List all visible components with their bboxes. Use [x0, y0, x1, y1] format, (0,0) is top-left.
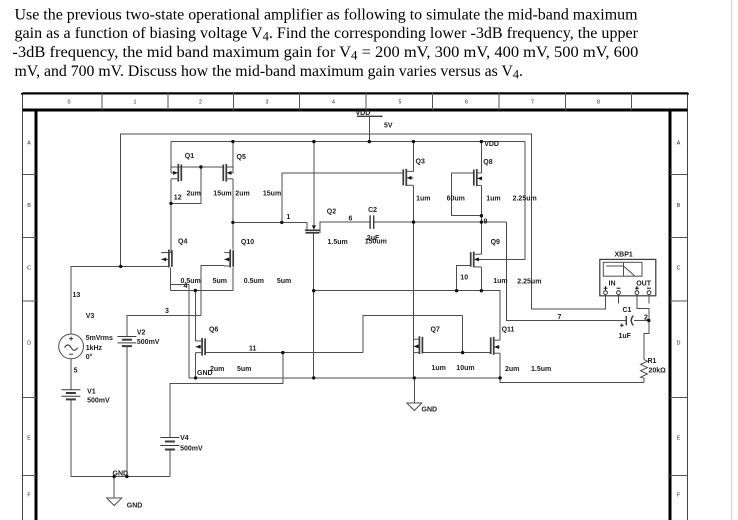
- junction ground bus GND symbol: [413, 376, 416, 379]
- svg-text:gain as a function of biasing: gain as a function of biasing voltage V4…: [15, 25, 639, 44]
- svg-text:2: 2: [199, 100, 202, 106]
- svg-text:2.25um: 2.25um: [517, 279, 541, 286]
- ground symbol (bottom): [107, 498, 122, 506]
- svg-text:60um: 60um: [447, 195, 465, 202]
- svg-text:1.5um: 1.5um: [328, 239, 348, 246]
- wire Q9 gate loop node 10: [457, 265, 471, 290]
- svg-text:Q10: Q10: [241, 239, 254, 246]
- svg-text:GND: GND: [127, 503, 143, 510]
- svg-text:15um: 15um: [213, 190, 231, 197]
- svg-text:6: 6: [465, 100, 468, 106]
- junction rail-Q8: [480, 140, 483, 143]
- svg-text:VDD: VDD: [356, 110, 371, 117]
- svg-text:10: 10: [460, 275, 468, 282]
- battery V1: [61, 390, 80, 400]
- wire VDD rail: [171, 141, 525, 143]
- wire net 3 from V2: [127, 316, 201, 337]
- svg-text:B: B: [677, 203, 681, 209]
- wire net 1 horizontal: [233, 221, 307, 223]
- svg-text:A: A: [27, 141, 31, 147]
- page edge line: [731, 0, 733, 520]
- wire input loop top (node 13 to Bode IN+): [121, 134, 606, 309]
- junction bus Q2 source: [312, 289, 315, 292]
- schematic border frame: [23, 93, 688, 520]
- svg-text:1um: 1um: [486, 195, 500, 202]
- svg-text:5V: 5V: [384, 123, 393, 130]
- svg-text:OUT: OUT: [636, 280, 652, 287]
- instrument XBP1 (Bode plotter): [600, 259, 656, 295]
- wire Q9 bulk line to VDD corner: [474, 142, 525, 260]
- svg-text:B: B: [27, 203, 31, 209]
- junction rail-VDD stem: [368, 140, 371, 143]
- svg-text:XBP1: XBP1: [615, 252, 633, 259]
- svg-text:15um: 15um: [263, 190, 281, 197]
- svg-text:C: C: [27, 266, 31, 272]
- svg-text:9: 9: [484, 218, 488, 225]
- wire Q8 drain to rail: [480, 142, 482, 173]
- wire node 4 horizontal: [171, 290, 233, 292]
- junction ground bus Q11: [498, 376, 501, 379]
- wire Q1 drain to node 12: [170, 179, 172, 253]
- wire Q6 source to ground bus: [195, 353, 197, 378]
- svg-text:500mV: 500mV: [87, 397, 110, 404]
- wire R1 bottom: [643, 378, 645, 383]
- svg-text:5: 5: [74, 368, 78, 375]
- wire net 4 stub: [171, 284, 189, 286]
- svg-text:1.5um: 1.5um: [531, 366, 551, 373]
- wire V2 minus down: [126, 346, 128, 476]
- wire Q4 gate riser: [170, 267, 172, 290]
- svg-text:12: 12: [174, 195, 182, 202]
- wire net 3 riser to Q10 source: [201, 266, 224, 316]
- wire C1 to R1: [634, 321, 649, 360]
- svg-text:Q8: Q8: [483, 159, 492, 166]
- svg-text:4: 4: [332, 100, 335, 106]
- svg-text:E: E: [677, 436, 681, 442]
- svg-text:1: 1: [286, 214, 290, 221]
- svg-text:GND: GND: [422, 407, 438, 414]
- wire Q1-Q5 gate wire: [171, 166, 223, 168]
- capacitor C1: [620, 316, 633, 328]
- junction ground rail GND drop: [113, 475, 116, 478]
- wire ground bus: [189, 377, 500, 379]
- junction rail-Q2: [312, 140, 315, 143]
- transistor Q7: [414, 336, 423, 354]
- junction net 1 riser: [280, 221, 283, 224]
- svg-text:7: 7: [531, 100, 534, 106]
- junction bus Q9 source: [480, 289, 483, 292]
- transistor Q2 (rotated): [305, 225, 320, 232]
- wire V3 to V1: [70, 359, 72, 390]
- wire V4 minus to ground rail: [169, 450, 171, 477]
- svg-text:D: D: [677, 340, 681, 346]
- junction node 12 gate: [199, 165, 202, 168]
- svg-text:Q11: Q11: [502, 327, 515, 334]
- wire Q2 gate lead: [306, 222, 308, 230]
- wire Q8 source to Q9 drain: [480, 185, 482, 254]
- svg-text:3: 3: [165, 308, 169, 315]
- resistor R1: [641, 360, 648, 379]
- VDD power symbol: [357, 115, 383, 117]
- wire bus node 4/9 horizontal: [314, 291, 500, 341]
- svg-text:0°: 0°: [86, 353, 93, 361]
- svg-text:20kΩ: 20kΩ: [649, 367, 667, 374]
- wire V4 bias line: [170, 353, 283, 438]
- svg-text:5: 5: [399, 100, 402, 106]
- svg-text:2.25um: 2.25um: [513, 195, 537, 202]
- wire V1 minus down: [70, 399, 72, 476]
- svg-text:R1: R1: [648, 358, 657, 365]
- svg-text:IN: IN: [609, 280, 616, 287]
- junction node 6 Q3 source: [412, 220, 415, 223]
- wire Q1 source to rail: [170, 142, 172, 174]
- transistor Q9: [471, 252, 482, 268]
- wire Bode OUT- pin stub: [648, 295, 650, 304]
- transistor Q4: [161, 250, 172, 268]
- transistor Q3: [403, 169, 413, 186]
- svg-text:2um: 2um: [235, 190, 249, 197]
- junction node 13: [119, 265, 122, 268]
- wire Q5 source to rail: [232, 142, 234, 174]
- wire net 11 riser: [363, 316, 463, 353]
- wire GND symbol drop mid: [413, 378, 415, 403]
- wire Q3 drain to rail: [413, 142, 415, 172]
- svg-text:Q7: Q7: [431, 327, 440, 334]
- svg-text:V3: V3: [86, 313, 95, 320]
- svg-text:Q9: Q9: [491, 239, 500, 246]
- wire Q7 gate tie: [422, 316, 462, 353]
- ground symbol (mid, at Q7): [407, 403, 422, 411]
- junction ground bus Q6: [194, 376, 197, 379]
- wire Q11 gate lead: [463, 352, 491, 354]
- junction rail-Q5: [231, 140, 234, 143]
- wire node 13 from V3: [71, 266, 161, 334]
- junction Q8 gate loop: [480, 214, 483, 217]
- svg-text:1um: 1um: [493, 278, 507, 285]
- wire net 1 riser to Q3 gate: [282, 173, 404, 223]
- svg-text:1um: 1um: [416, 195, 430, 202]
- svg-text:5mVrms: 5mVrms: [86, 335, 113, 342]
- wire Q6 drain to node 4: [194, 291, 196, 341]
- wire net 2 Bode OUT jog: [637, 295, 649, 321]
- junction net 11 V4 riser: [281, 351, 284, 354]
- svg-text:3: 3: [266, 100, 269, 106]
- svg-text:V2: V2: [137, 329, 146, 336]
- svg-text:6: 6: [349, 215, 353, 222]
- wire net 11: [205, 352, 363, 354]
- junction net 1 left: [231, 221, 234, 224]
- battery V2: [117, 337, 136, 347]
- svg-text:4: 4: [184, 283, 188, 290]
- svg-text:Q1: Q1: [185, 153, 194, 160]
- svg-text:D: D: [27, 340, 31, 346]
- wire Bode IN- pin stub: [618, 295, 620, 304]
- wire node 6 from Q2: [320, 222, 370, 233]
- svg-text:A: A: [677, 141, 681, 147]
- svg-text:2um: 2um: [187, 190, 201, 197]
- transistor Q6: [196, 338, 206, 356]
- svg-text:8: 8: [597, 100, 600, 106]
- wire Q2 drain to rail: [313, 142, 315, 228]
- junction ground bus Q2: [312, 376, 315, 379]
- svg-text:Q2: Q2: [327, 209, 336, 216]
- transistor Q8: [474, 169, 482, 186]
- svg-text:5um: 5um: [277, 278, 291, 285]
- wire Q11 source to R1 return: [500, 353, 644, 383]
- svg-text:5um: 5um: [237, 366, 251, 373]
- wire Q3 source down through Q7 to ground bus: [413, 185, 415, 378]
- svg-text:V4: V4: [180, 435, 189, 442]
- svg-text:E: E: [27, 436, 31, 442]
- svg-text:2: 2: [644, 314, 648, 321]
- capacitor C2: [370, 215, 374, 229]
- wire Q9 source down: [480, 267, 482, 291]
- svg-text:GND: GND: [197, 370, 213, 377]
- junction node 4 Q6 drain: [194, 289, 197, 292]
- svg-text:2um: 2um: [505, 366, 519, 373]
- svg-text:-3dB frequency, the mid band m: -3dB frequency, the mid band maximum gai…: [12, 44, 638, 63]
- junction node 9: [480, 220, 483, 223]
- battery V4: [160, 438, 179, 450]
- svg-text:1: 1: [134, 100, 137, 106]
- svg-text:1kHz: 1kHz: [86, 345, 103, 352]
- svg-text:GND: GND: [113, 471, 129, 478]
- wire node 6 to node 9: [374, 221, 507, 223]
- svg-text:0: 0: [68, 100, 71, 106]
- junction rail-Q3: [412, 140, 415, 143]
- wire VDD stem: [368, 116, 370, 141]
- AC source V3: [59, 334, 84, 359]
- svg-text:C1: C1: [623, 307, 632, 314]
- junction node 12: [169, 202, 172, 205]
- svg-text:10um: 10um: [456, 365, 474, 372]
- svg-text:1uF: 1uF: [619, 333, 632, 340]
- svg-text:11: 11: [249, 346, 257, 353]
- svg-text:V1: V1: [87, 389, 96, 396]
- svg-text:5um: 5um: [213, 278, 227, 285]
- svg-text:150um: 150um: [365, 238, 387, 245]
- svg-text:Use the previous two-state ope: Use the previous two-state operational a…: [15, 6, 639, 23]
- svg-text:VDD: VDD: [484, 141, 499, 148]
- transistor Q11: [491, 337, 500, 355]
- svg-text:mV, and 700 mV. Discuss how th: mV, and 700 mV. Discuss how the mid-band…: [15, 63, 524, 82]
- svg-text:1um: 1um: [432, 365, 446, 372]
- svg-text:500mV: 500mV: [180, 446, 203, 453]
- wire GND symbol drop bottom: [113, 477, 115, 499]
- junction Q7 gate corner: [461, 351, 464, 354]
- transistor Q1: [171, 164, 181, 182]
- svg-text:C2: C2: [368, 207, 377, 214]
- svg-text:Q5: Q5: [237, 154, 246, 161]
- junction ground rail V2: [125, 475, 128, 478]
- svg-text:C: C: [677, 266, 681, 272]
- svg-text:Q4: Q4: [178, 239, 187, 246]
- svg-text:Q6: Q6: [209, 327, 218, 334]
- svg-text:13: 13: [73, 292, 81, 299]
- svg-text:500mV: 500mV: [137, 339, 160, 346]
- svg-text:7: 7: [558, 314, 562, 321]
- wire Q10 gate riser: [232, 267, 234, 290]
- wire node 9 output drop to net 7: [506, 222, 626, 320]
- svg-text:0.5um: 0.5um: [244, 278, 264, 285]
- junction node 2: [647, 319, 650, 322]
- transistor Q10: [224, 250, 233, 268]
- wire ground rail bottom: [71, 476, 170, 478]
- wire Q5 drain to Q10: [232, 179, 234, 250]
- junction bus Q9 gate: [455, 289, 458, 292]
- wire Q8 gate loop: [451, 173, 481, 216]
- wire node 12 to Q4 drain: [161, 252, 171, 254]
- transistor Q5: [223, 164, 233, 182]
- wire Q2 source down to ground bus: [313, 233, 315, 378]
- XBP1 terminals: [604, 286, 652, 296]
- svg-text:Q3: Q3: [416, 159, 425, 166]
- wire ground riser left: [188, 285, 190, 378]
- wire node 12 gate tie: [171, 167, 201, 203]
